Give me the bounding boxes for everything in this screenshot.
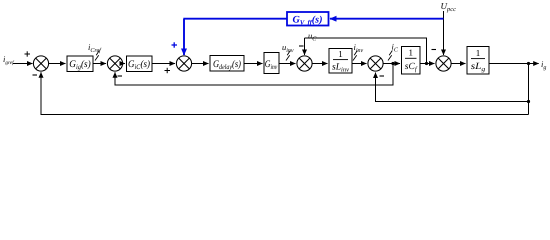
plus sign at summing junction 3 xyxy=(165,68,171,73)
svg-text:Gig(s): Gig(s) xyxy=(69,59,91,71)
svg-text:Upcc: Upcc xyxy=(441,1,457,13)
arrowhead ig bottom feedback into junction 1 xyxy=(40,72,42,79)
block Gig(s) xyxy=(67,56,93,72)
wire ig bottom feedback: to junction 1 xyxy=(41,78,529,115)
svg-text:uC: uC xyxy=(308,31,317,43)
wire Upcc down into junction 5 xyxy=(443,11,445,55)
wire 1/sLinv to summing junction 4 xyxy=(352,63,367,65)
block 1/sLg xyxy=(467,47,489,75)
slash vector mark on uinv wire xyxy=(286,51,290,61)
wire iC feedback: from tap down and left to junction 2 xyxy=(115,64,393,86)
svg-text:ig: ig xyxy=(541,59,546,71)
minus sign below summing junction 2 xyxy=(118,75,123,77)
arrowhead iC feedback into junction 2 xyxy=(114,72,116,79)
wire Gdelay to Ginv xyxy=(244,63,263,65)
wire uC feedback: horizontal from tap to junction u xyxy=(305,38,427,64)
wire junction4 to sCf xyxy=(383,63,400,65)
block 1/sLinv xyxy=(329,49,352,74)
slash vector mark on iCref wire xyxy=(95,51,99,61)
minus sign below summing junction 4 xyxy=(380,75,385,77)
svg-text:iC: iC xyxy=(392,42,399,54)
slash vector mark on iC wire xyxy=(388,51,392,61)
summing junction 4 (iinv - ig) xyxy=(368,56,383,71)
wire uC feedback: down into junction u xyxy=(304,38,306,55)
summing junction 1 xyxy=(33,56,48,71)
wire input to summing junction 1 xyxy=(13,63,33,65)
svg-text:1: 1 xyxy=(476,48,481,58)
blue feedforward wire down into junction 3 xyxy=(183,19,185,55)
summing junction u (uinv - uC) xyxy=(297,56,312,71)
minus sign at Upcc input xyxy=(432,49,437,51)
minus sign below summing junction 1 xyxy=(33,74,38,76)
plus sign at summing junction 1 xyxy=(25,51,31,56)
summing junction 3 xyxy=(176,56,191,71)
node dot on ig feedback vertical xyxy=(527,100,530,103)
blue feedforward wire from Upcc tap to Gvff xyxy=(330,18,444,20)
svg-text:1: 1 xyxy=(408,48,413,58)
svg-text:uinv: uinv xyxy=(282,42,294,54)
arrowhead ig mid feedback into junction 4 xyxy=(375,73,377,80)
minus sign at uC input xyxy=(299,45,304,47)
svg-text:iinv: iinv xyxy=(354,42,364,54)
slash vector mark on iinv wire xyxy=(353,51,357,61)
wire junction5 to sLg xyxy=(451,63,466,65)
node iC tap dot xyxy=(391,62,394,65)
node uC tap dot xyxy=(425,62,428,65)
svg-text:iCref: iCref xyxy=(88,42,102,54)
wire Ginv to summing junction u xyxy=(279,63,296,65)
block GiC(s) xyxy=(127,56,153,72)
wire junction2 to GiC xyxy=(122,63,125,65)
wire junction3 to Gdelay xyxy=(192,63,209,65)
node igref input label xyxy=(3,54,15,66)
svg-text:1: 1 xyxy=(338,49,343,59)
wire sLg to output ig xyxy=(489,63,539,65)
wire sCf to summing junction 5 xyxy=(420,63,435,65)
block Gdelay(s) xyxy=(210,56,244,72)
wire junction1 to Gig xyxy=(48,63,65,65)
wire Gig to summing junction 2 xyxy=(93,63,106,65)
blue feedforward wire from Gvff to junction 3 corner xyxy=(183,18,287,20)
blue plus sign at summing junction 3 xyxy=(172,42,178,47)
wire ig feedback vertical at right xyxy=(528,64,530,115)
block Gvff(s) feedforward xyxy=(287,12,329,26)
svg-text:igref: igref xyxy=(3,54,15,66)
wire junction u to 1/sLinv xyxy=(312,63,328,65)
summing junction 2 xyxy=(107,56,122,71)
wire GiC to summing junction 3 xyxy=(152,63,175,65)
node ig tap dot xyxy=(527,62,530,65)
summing junction 5 (uC - Upcc) xyxy=(436,56,451,71)
block 1/sCf xyxy=(402,47,421,75)
block Ginv xyxy=(264,53,279,74)
wire ig mid feedback: from right vertical to junction 4 xyxy=(376,78,529,102)
